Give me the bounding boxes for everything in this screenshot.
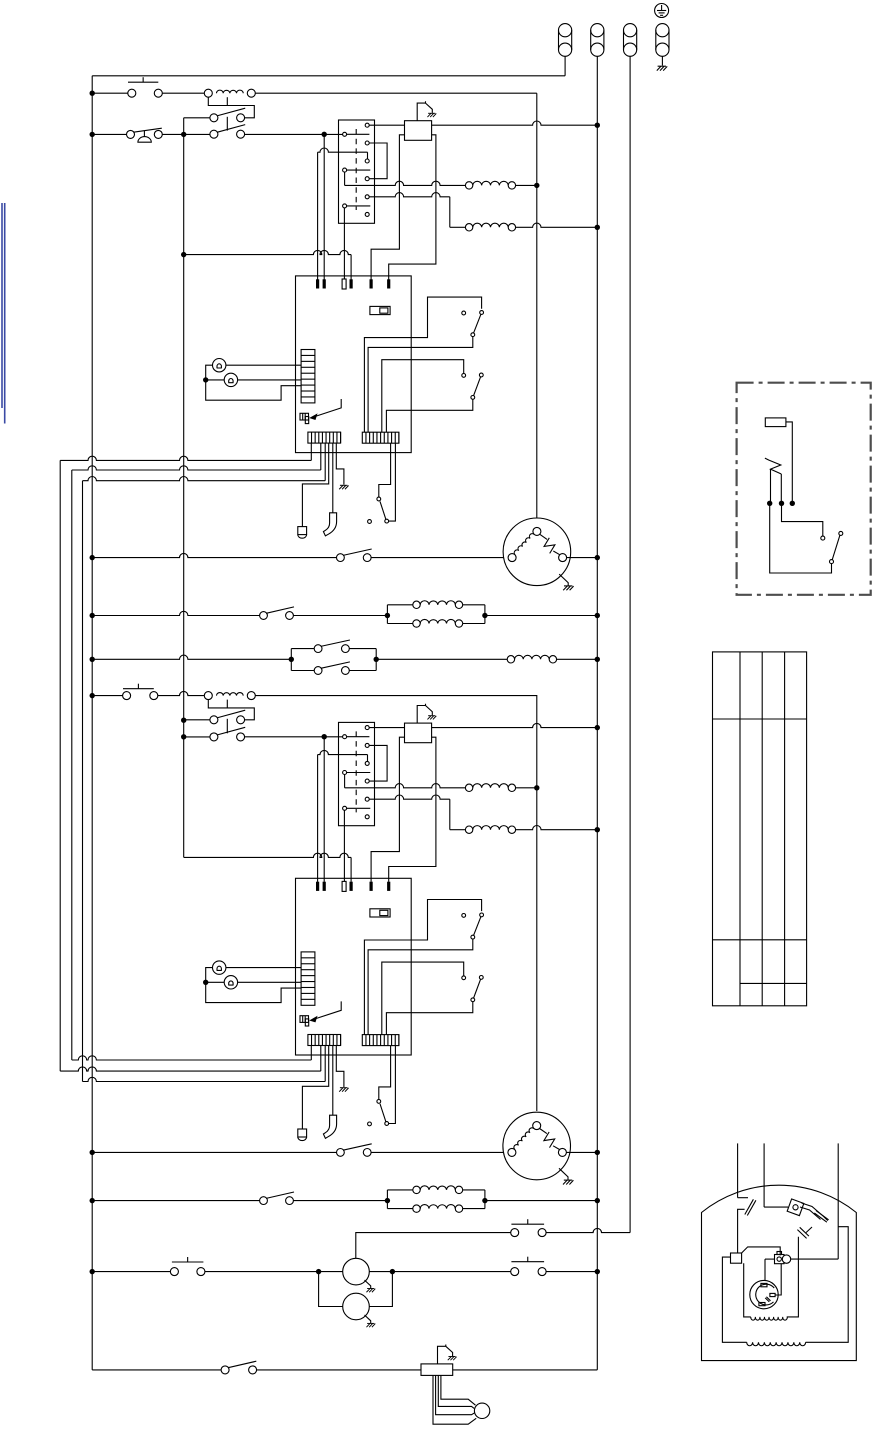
push switch S2B actuator (123, 688, 154, 690)
wire remote switch return (770, 503, 832, 573)
selector internal bar 1 (347, 736, 370, 738)
wire board to bus A (310, 1046, 312, 1061)
switch S3B (260, 1197, 268, 1205)
wire selector to element 2 (369, 795, 450, 799)
supply terminal L1 (559, 24, 572, 37)
wire board to door plug (302, 443, 328, 526)
relay coil K1A (217, 693, 244, 696)
control board PCB outline (296, 878, 412, 1055)
wire to cooling motor M4 right (369, 1272, 392, 1307)
bake element coil (473, 181, 508, 185)
remote relay coil (765, 418, 786, 427)
wire S6 to cooling motors (205, 1271, 343, 1273)
wire remote to switch terminal (782, 503, 823, 536)
wire selector to element 2 (369, 193, 450, 197)
door lock plug (298, 1129, 307, 1137)
latch wire stub 3 (837, 1143, 839, 1259)
bus interconnect wire B (72, 466, 321, 470)
chassis ground (339, 485, 348, 489)
supply terminal L2 (624, 24, 637, 37)
wire L1 to top border (564, 56, 566, 76)
board fuse icon (370, 306, 390, 314)
wire board to switch SW2 (382, 360, 464, 432)
grill element coil (515, 655, 550, 659)
wire cooling motor to L2 row (356, 1233, 511, 1259)
node lamp row (90, 1269, 95, 1274)
lamp wiring (226, 364, 301, 366)
wire selector to element 1 (344, 172, 346, 185)
wire contact to bus (184, 117, 210, 119)
node lower fan row (90, 1150, 95, 1155)
wire grill coil to right bus (557, 658, 598, 660)
push switch S2 (128, 89, 136, 97)
wire board pin 2 to row (323, 134, 325, 279)
wire S5 to L2 bus (546, 1228, 630, 1232)
wire board to bus C (324, 1046, 326, 1082)
convection fan motor M1 (503, 518, 571, 586)
wire board to bus C (324, 443, 326, 481)
wire board to switch SW1 (364, 297, 481, 432)
switch SW2 (462, 976, 466, 980)
wire relay to motor feed lower (255, 695, 537, 697)
push switch S5 actuator (511, 1223, 544, 1225)
wire thermostat lower-right to board (389, 135, 436, 280)
relay coil K1A (217, 90, 244, 93)
latch switch body (731, 1253, 742, 1263)
chassis ground (339, 1088, 348, 1092)
node convection row (90, 555, 95, 560)
wire border to door switch (92, 133, 126, 135)
latch pad 2 (800, 1227, 809, 1236)
wire thermostat to right bus (432, 121, 598, 125)
wire board to door plug (302, 1046, 328, 1130)
wire selector to element 1 (344, 775, 346, 788)
door lock wires fan-out (433, 1375, 476, 1424)
latch cam pivot (764, 1206, 788, 1208)
wire lamp row left (92, 1271, 170, 1273)
terminal block grid (713, 652, 807, 1006)
wire element 1 to motor bus (516, 184, 537, 186)
door lock plug (298, 527, 307, 535)
wire to cooling motor M4 left (319, 1272, 343, 1307)
selector jumper loop terminals 2-4 (369, 143, 387, 179)
node inner bus row 2 (181, 132, 186, 137)
wire relay contact to selector (245, 133, 343, 135)
wire board to switch SW1 (364, 900, 481, 1035)
oven lamp L2 (224, 976, 237, 989)
bus wire L2 (629, 56, 631, 1232)
wire board to bus A (310, 443, 312, 460)
lamp wiring (226, 967, 301, 969)
node relay output (181, 252, 186, 257)
wire S7 to right bus (546, 1271, 597, 1273)
board top pins (316, 279, 319, 288)
selector terminal circles (365, 123, 369, 127)
wire S3 to twin coils (294, 615, 388, 617)
inner bus wire (183, 118, 185, 858)
wire inner bus to board pin 4 (184, 250, 351, 254)
wire board to chassis ground (336, 443, 344, 485)
node grill row (90, 657, 95, 662)
wire thermostat lower-right to board (389, 737, 436, 882)
bus interconnect wire C (83, 477, 326, 481)
remote thermal breaker (765, 458, 781, 474)
node remote junctions (767, 501, 772, 506)
bake element coil (473, 784, 508, 788)
wire cam to stub 3 (791, 1258, 839, 1260)
wire breaker leg 1 (770, 469, 772, 503)
blue margin bar 1 (1, 203, 3, 408)
wire motors junction right (369, 1271, 510, 1273)
thermostat TH1 body (405, 121, 432, 141)
switch SW1 (462, 311, 466, 315)
board bottom connector right (362, 1035, 399, 1046)
push switch S2 actuator (128, 81, 158, 83)
bottom row switch S8 (221, 1366, 229, 1374)
door lock sensor flag (438, 1345, 453, 1364)
wire element 2 to right bus (516, 826, 598, 830)
wire selector to board pin 3 (343, 208, 345, 280)
selector jumper loop terminals 2-4 (369, 745, 387, 781)
selector internal bar 3 (347, 807, 371, 809)
wire board to door interlock switch (379, 443, 391, 497)
switch SW2 (462, 374, 466, 378)
convection fan switch (337, 554, 345, 562)
latch interlock contact (738, 1197, 748, 1199)
bottom border wire (92, 1369, 221, 1371)
node row 2 left (90, 132, 95, 137)
node lower element row (90, 1198, 95, 1203)
wire lower element row (92, 1200, 259, 1202)
wire interlock to board (389, 1046, 396, 1124)
wire bus to relay contact lower (184, 736, 210, 738)
wire SW1 to board (368, 939, 473, 1035)
board connector header (301, 952, 315, 1005)
wire convection row left (92, 553, 336, 557)
lower fan switch (337, 1149, 345, 1157)
twin heater coils (385, 613, 390, 618)
board bottom connector left (308, 1035, 341, 1046)
thermostat sensor flag (417, 704, 432, 723)
switch S3 (260, 612, 268, 620)
board bottom connector right (362, 432, 399, 443)
right bus wire N (596, 56, 598, 1370)
wire board pin 1 to selector (318, 750, 368, 754)
wire grill row left (92, 655, 291, 659)
wire selector to thermostat (369, 124, 404, 126)
trim component with pointer (300, 1016, 309, 1023)
wire selector to thermostat (369, 727, 404, 729)
wire selector to board pin 3 (343, 810, 345, 882)
latch motor housing (702, 1185, 857, 1360)
wire SW2 to board (386, 399, 472, 432)
selector internal bar 2 (347, 169, 371, 171)
wire switch to fan motor (371, 557, 512, 559)
relay contact set (210, 114, 218, 122)
thermostat TH1 body (405, 723, 432, 743)
wire remote coil down (786, 422, 792, 503)
latch lever arm (802, 1203, 828, 1221)
door lock assembly box (421, 1364, 453, 1376)
wire contact to bus (184, 719, 210, 721)
blue margin bar 2 (4, 203, 6, 424)
board bottom connector left (308, 432, 341, 443)
lower twin heater coils (385, 1198, 390, 1203)
oven lamp L1 (213, 961, 226, 974)
wire board to switch SW2 (382, 962, 464, 1034)
switch SW1 (462, 914, 466, 918)
selector dashed line (355, 731, 357, 812)
wire element row left (92, 611, 259, 615)
motor feed wire bottom section (536, 695, 538, 1111)
wire element 1 to motor bus (516, 787, 537, 789)
selector terminal circles (365, 726, 369, 730)
latch wire stub 2 (763, 1143, 765, 1207)
wire board to door interlock switch (379, 1046, 391, 1100)
wire thermostat to right bus (432, 723, 598, 727)
door interlock switch (377, 1100, 381, 1104)
door switch with alarm (127, 130, 135, 138)
wire switch to lower fan motor (371, 1151, 512, 1153)
wire S2 to relay coil (162, 92, 204, 94)
remote control dashed enclosure (737, 383, 871, 595)
wire board to bus B (320, 1046, 322, 1072)
motor feed wire top section (536, 93, 538, 518)
wire brush to arm (775, 1264, 781, 1295)
wire board pin 1 to selector (318, 148, 368, 152)
selector dashed line (355, 129, 357, 210)
wire border to S2B (92, 695, 122, 697)
selector switch S1 block (339, 722, 375, 825)
push switch S7 (511, 1268, 519, 1276)
wire thermostat lower-left to board (371, 737, 404, 882)
supply terminal N (591, 24, 604, 37)
board connector header (301, 350, 315, 403)
double pole switch S4 (289, 657, 294, 662)
door interlock switch (377, 497, 381, 501)
selector internal bar 1 (347, 133, 370, 135)
control board PCB outline (296, 276, 412, 453)
node inner bus to board pin lower (184, 853, 351, 857)
relay contact set (210, 716, 218, 724)
lower fan motor M2 (503, 1112, 571, 1180)
wire fan motor to right bus (567, 557, 598, 559)
earth symbol (655, 4, 669, 18)
wire interlock to board (389, 443, 396, 521)
wire relay coil to NC contact (208, 97, 254, 118)
temperature probe (323, 1115, 336, 1138)
wire board pin 2 to row (323, 737, 325, 882)
wire relay coil to NC contact (208, 700, 254, 720)
bus interconnect wire A (60, 456, 311, 460)
wire brush down (765, 1258, 775, 1260)
wire S3B to twin coils (294, 1200, 388, 1202)
left border wire (91, 76, 93, 1370)
wire lower fan row (92, 1151, 336, 1153)
wire square to cam (742, 1247, 781, 1256)
node element row (90, 613, 95, 618)
latch wire stub 1 (737, 1143, 739, 1197)
wire SW1 to board (368, 337, 473, 433)
cooling motor M3 (343, 1258, 370, 1285)
wire twin coils to right bus (485, 615, 597, 617)
wire board to temperature probe (332, 443, 334, 513)
chassis ground at supply (657, 66, 667, 70)
latch motor stator (750, 1280, 778, 1308)
push switch S2B (123, 692, 131, 700)
push switch S7 actuator (511, 1261, 544, 1263)
latch motor brush assembly (775, 1255, 785, 1264)
board top pins (316, 882, 319, 891)
oven lamp L1 (213, 359, 226, 372)
oven lamp L2 (224, 373, 237, 386)
wire relay contact to selector lower (245, 736, 343, 738)
wire lower twin coils to right bus (485, 1200, 597, 1202)
supply terminal ground (656, 24, 669, 37)
selector internal bar 3 (347, 205, 371, 207)
selector internal bar 2 (347, 772, 371, 774)
push switch S5 (511, 1229, 519, 1237)
wire board to temperature probe (332, 1046, 334, 1116)
door lock motor (474, 1403, 489, 1418)
wire border to S2 (92, 92, 128, 94)
stator brushes (761, 1283, 767, 1286)
push switch S6 actuator (172, 1261, 204, 1263)
wire S2B to relay coil (158, 691, 205, 695)
push switch S6 (170, 1268, 178, 1276)
trim component with pointer (300, 413, 309, 420)
broil element coil (473, 223, 508, 227)
wire board to bus B (320, 443, 322, 470)
wire relay to motor feed (255, 92, 537, 94)
wire S4 to grill coil (376, 658, 507, 660)
wire ground terminal to chassis (661, 56, 663, 65)
cooling motor M4 (343, 1293, 370, 1320)
wire board to chassis ground (336, 1046, 344, 1088)
selector switch S1 block (339, 120, 375, 223)
latch pad 1 (816, 1211, 829, 1220)
temperature probe (323, 513, 336, 536)
thermostat sensor flag (417, 101, 432, 120)
wire breaker leg 2 (780, 474, 782, 503)
wire element 2 to right bus (516, 223, 598, 227)
wire thermostat lower-left to board (371, 135, 404, 280)
wire door switch to relay contact (162, 133, 210, 135)
node L1 row 1 (90, 91, 95, 96)
remote switch (821, 536, 825, 540)
node L1 row 1 lower (90, 693, 95, 698)
latch coil 2 (722, 1257, 746, 1342)
wire SW2 to board (386, 1002, 472, 1035)
broil element coil (473, 826, 508, 830)
latch coil 1 (744, 1263, 751, 1317)
wire lower fan motor to right bus (566, 1151, 597, 1153)
board fuse icon (370, 909, 390, 917)
top border wire (92, 75, 565, 77)
